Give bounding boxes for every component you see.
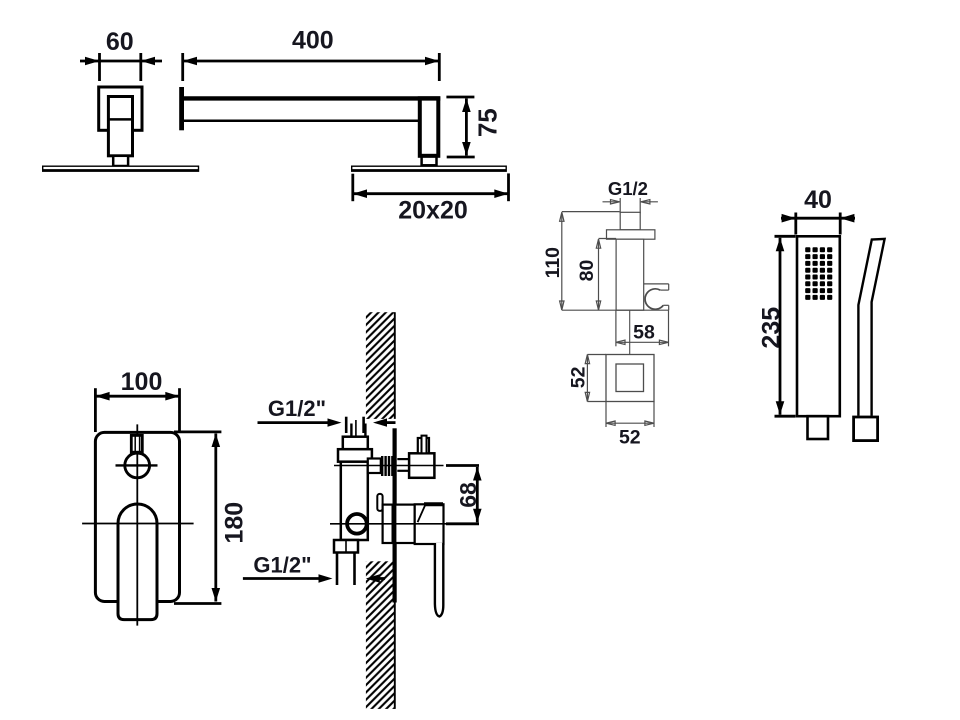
dimension 52 bottom label xyxy=(619,427,641,449)
dimension 60 arrows xyxy=(85,57,155,66)
label G1/2 xyxy=(608,178,648,199)
holder hook xyxy=(644,284,669,310)
dimension 110 label xyxy=(542,247,564,279)
dimension 400 arrows xyxy=(183,57,440,66)
dimension 235 label xyxy=(757,307,785,349)
shower head nozzle (right view) xyxy=(422,157,437,166)
label G1/2 inch top xyxy=(268,396,326,421)
handle escutcheon xyxy=(395,505,414,543)
outlet stub pipe xyxy=(620,212,640,230)
dimension 68 label xyxy=(455,482,481,508)
dimension 100 arrows xyxy=(95,392,179,401)
shower head plate (right view) xyxy=(352,166,507,171)
valve body cap xyxy=(343,437,368,450)
dimension 52 left lines xyxy=(585,355,606,402)
centerline top outlet xyxy=(334,465,444,467)
dimension 40 arrows xyxy=(782,214,855,223)
svg-text:40: 40 xyxy=(804,186,832,214)
projection centerline to bottom view xyxy=(629,310,631,354)
svg-text:G1/2": G1/2" xyxy=(253,552,311,577)
dimension 235 arrows xyxy=(776,238,785,415)
dimension 400 label xyxy=(292,26,334,54)
hand shower side view handle block xyxy=(854,417,878,441)
shower arm tube end (side view) xyxy=(108,97,132,156)
dimension 68 lines xyxy=(446,466,479,524)
dimension 100 label xyxy=(121,368,163,396)
valve cartridge neck xyxy=(368,459,381,474)
wall hatch lower section xyxy=(366,561,395,709)
small tab xyxy=(377,494,382,511)
bottom view outer square xyxy=(606,355,654,402)
wall trim plate (thick line) xyxy=(393,428,397,602)
svg-text:G1/2: G1/2 xyxy=(608,178,648,199)
valve top inlet pipe / ticks xyxy=(346,417,365,438)
dimension 52 bottom lines xyxy=(606,402,654,428)
mixer diverter knob circle xyxy=(125,453,150,478)
outlet body xyxy=(616,239,644,310)
G1/2 bottom arrow left xyxy=(243,574,333,582)
valve centerline vertical xyxy=(355,420,357,550)
dimension 235 lines xyxy=(775,236,796,416)
lower outlet step xyxy=(383,505,393,543)
shower arm horizontal tube xyxy=(184,98,440,120)
G1/2 bottom arrow right xyxy=(366,574,385,582)
bottom view inner square xyxy=(616,364,644,392)
valve body collar xyxy=(338,449,372,462)
svg-text:110: 110 xyxy=(542,247,564,279)
wall hatch upper section xyxy=(366,312,395,419)
dimension 75 lines xyxy=(446,97,474,157)
outlet flange xyxy=(607,230,655,239)
label G1/2 inch bottom xyxy=(253,552,311,577)
dimension 100 lines xyxy=(95,388,179,432)
hand shower side view tube xyxy=(858,239,884,416)
svg-text:60: 60 xyxy=(106,28,134,56)
dimension 52 left label xyxy=(567,366,589,388)
dimension 60 line xyxy=(80,53,162,81)
valve cartridge ribs xyxy=(381,456,394,476)
centerline bottom outlet xyxy=(330,523,446,525)
dimension 20x20 arrows xyxy=(353,189,509,198)
dimension 20x20 lines xyxy=(353,173,509,201)
mixer trim plate xyxy=(95,432,179,601)
dimension 58 label xyxy=(633,322,655,344)
svg-text:52: 52 xyxy=(567,366,589,388)
dimension 400 line xyxy=(183,53,440,81)
svg-text:400: 400 xyxy=(292,26,334,54)
dimension 75 label xyxy=(473,108,503,137)
handle lever blade xyxy=(435,543,443,617)
G1/2 arrows xyxy=(603,198,658,213)
svg-text:G1/2": G1/2" xyxy=(268,396,326,421)
dimension 68 arrows xyxy=(473,467,482,522)
dimension 80 lines xyxy=(596,239,616,311)
shower head nozzle (left view) xyxy=(113,156,128,166)
shower arm wall flange bar (front view) xyxy=(179,87,184,130)
G1/2 top arrow left xyxy=(258,418,342,426)
dimension 80 label xyxy=(576,260,598,282)
dimension 75 arrows xyxy=(462,99,471,156)
dimension 180 lines xyxy=(174,432,221,604)
hand shower spray grid xyxy=(805,247,832,300)
dimension 40 label xyxy=(804,186,832,214)
hand shower body xyxy=(797,236,840,416)
svg-text:52: 52 xyxy=(619,427,641,449)
dimension 180 arrows xyxy=(212,434,221,602)
valve bottom inlet pipe xyxy=(337,540,355,585)
dimension 110 lines xyxy=(560,212,669,311)
svg-text:20x20: 20x20 xyxy=(398,197,468,225)
top outlet stub xyxy=(418,436,429,454)
handle hub xyxy=(415,504,444,544)
svg-text:100: 100 xyxy=(121,368,163,396)
valve body main xyxy=(341,462,368,540)
svg-text:58: 58 xyxy=(633,322,655,344)
svg-text:80: 80 xyxy=(576,260,598,282)
mixer diverter handle (U shape) xyxy=(118,504,157,620)
valve bottom block xyxy=(334,540,358,553)
mixer centerlines xyxy=(82,424,194,625)
mixer stem xyxy=(131,435,142,452)
shower arm drop pipe xyxy=(420,98,439,156)
dimension 40 lines xyxy=(781,213,855,235)
dimension 180 label xyxy=(220,502,248,544)
shower arm wall flange (side view, square) xyxy=(99,87,142,130)
top outlet connector xyxy=(397,459,409,471)
hand shower handle bottom xyxy=(808,416,829,439)
dimension 20x20 label xyxy=(398,197,468,225)
svg-text:180: 180 xyxy=(220,502,248,544)
dimension 58 lines xyxy=(616,310,669,346)
shower head plate (left view) xyxy=(43,166,199,171)
svg-text:75: 75 xyxy=(473,108,503,137)
valve outlet circle xyxy=(347,514,367,534)
G1/2 top arrow right xyxy=(373,418,396,426)
top outlet block xyxy=(409,453,434,478)
dimension 60 label xyxy=(106,28,134,56)
